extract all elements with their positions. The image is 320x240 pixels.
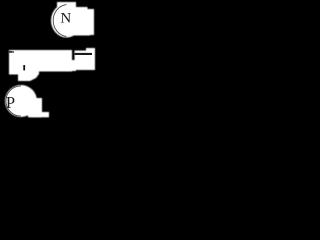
svg-text:P: P (6, 93, 15, 112)
svg-text:N: N (60, 10, 71, 26)
